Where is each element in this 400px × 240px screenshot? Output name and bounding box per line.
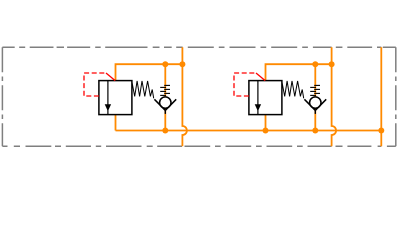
relief valve V1 flow arrow [105, 81, 111, 115]
junction dot: bottom bus / bus P3 [378, 128, 384, 134]
check valve CV1 spring [160, 85, 170, 95]
wire: vertical bus P3 x=381.3 [380, 47, 382, 146]
junction dot: CV1 / bottom bus [162, 128, 168, 134]
relief valve V2 flow arrow [255, 81, 261, 115]
check valve CV2 ball [310, 97, 321, 108]
relief valve V1 pilot line (red dashed) [84, 73, 106, 96]
relief valve V2 pilot diagonal [256, 73, 265, 81]
junction dot: V1 top rail / bus [179, 61, 185, 67]
relief valve V2 body [249, 81, 282, 115]
relief valve V1 body [99, 81, 132, 115]
wire: check valve CV1 branch [164, 64, 166, 130]
wire: valve V2 inlet (top) [266, 64, 332, 80]
wire: bottom bus line y=130.5 [116, 130, 382, 132]
junction dot: V2 outlet / bottom bus [263, 128, 269, 134]
wire: valve V2 outlet (bottom) [265, 115, 267, 131]
wire: valve V1 outlet (bottom) [115, 115, 117, 131]
check valve CV2 spring [310, 85, 320, 95]
relief valve V1 spring [132, 81, 154, 98]
check valve CV1 seat [154, 99, 176, 110]
wire: check valve CV2 branch [314, 64, 316, 130]
wire: vertical bus P1 x=182.4 [182, 47, 187, 146]
check valve CV2 seat [304, 99, 326, 110]
enclosure boundary (dash-dot box) [2, 47, 395, 146]
relief valve V2 spring [282, 81, 304, 98]
relief valve V1 pilot diagonal [106, 73, 115, 81]
junction dot: CV2 / bottom bus [312, 128, 318, 134]
relief valve V2 pilot line (red dashed) [234, 73, 256, 96]
wire: vertical bus P2 x=331.6 [332, 47, 337, 146]
junction dot: V2 top rail / CV2 [312, 61, 318, 67]
junction dot: V2 top rail / bus [329, 61, 335, 67]
wire: valve V1 inlet (top) [116, 64, 183, 80]
junction dot: V1 top rail / CV1 [162, 61, 168, 67]
check valve CV1 ball [160, 97, 171, 108]
